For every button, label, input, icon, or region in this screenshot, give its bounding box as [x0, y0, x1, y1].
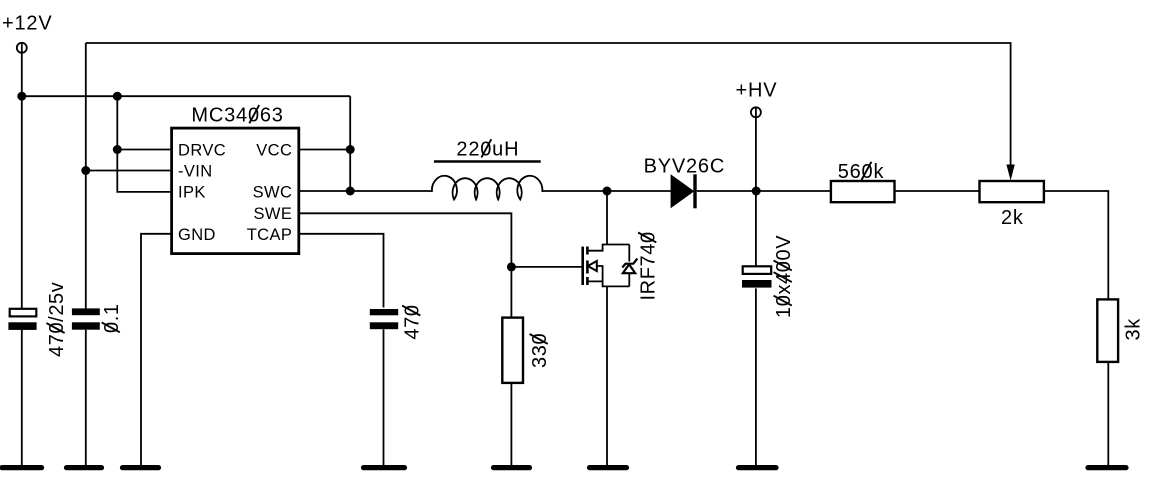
- ground G7: [739, 465, 777, 470]
- wire feedback vertical: [85, 43, 87, 309]
- svg-text:SWC: SWC: [253, 184, 293, 202]
- wire feedback top: [86, 43, 1011, 166]
- svg-text:470: 470: [402, 304, 424, 339]
- svg-text:MC34063: MC34063: [191, 105, 283, 127]
- wire C4 to ground: [383, 329, 385, 466]
- capacitor C3 10x400V: [742, 235, 795, 318]
- resistor R4 330: [502, 318, 551, 383]
- diode D1 BYV26C: [644, 155, 726, 208]
- node junction B: [113, 92, 122, 101]
- node junction DRVC: [113, 145, 122, 154]
- node +12V label: [2, 12, 52, 34]
- wire 3k to ground: [1107, 362, 1109, 466]
- wire +12V down to C1: [21, 53, 23, 309]
- inductor L1 220uH: [432, 139, 542, 200]
- wire TCAP to C4: [299, 234, 384, 308]
- wire source to ground: [606, 286, 608, 466]
- svg-text:TCAP: TCAP: [247, 226, 293, 244]
- capacitor C2 0.1: [72, 303, 123, 333]
- wire pot to 3k: [1044, 191, 1108, 299]
- wire diode to 560k: [697, 190, 831, 192]
- capacitor C1 470/25v: [8, 282, 67, 357]
- svg-text:2k: 2k: [1001, 207, 1024, 229]
- wire VCC stub: [299, 149, 350, 151]
- wire +HV down to C3: [755, 117, 757, 266]
- terminal +HV: [751, 107, 761, 118]
- wire C1 bottom to ground: [21, 330, 23, 466]
- ground G1: [2, 465, 42, 470]
- ground G2: [67, 465, 102, 470]
- resistor R3 3k: [1097, 299, 1144, 362]
- wire C3 bottom to ground: [755, 288, 757, 466]
- ground G5: [494, 465, 530, 470]
- resistor R1 560k: [831, 161, 895, 202]
- svg-text:220uH: 220uH: [456, 139, 519, 161]
- svg-text:GND: GND: [178, 226, 216, 244]
- terminal +12V: [17, 42, 27, 53]
- wire inductor to diode: [542, 190, 671, 192]
- svg-text:SWE: SWE: [254, 205, 293, 223]
- node +HV label: [736, 79, 778, 101]
- svg-text:IPK: IPK: [178, 184, 206, 202]
- svg-text:3k: 3k: [1123, 318, 1145, 341]
- wire SWC to inductor: [299, 190, 432, 192]
- node junction SWC: [346, 187, 355, 196]
- node junction drain: [603, 187, 612, 196]
- wire DRVC stub: [117, 149, 171, 151]
- wire vertical rail to SWC: [349, 96, 351, 191]
- svg-text:560k: 560k: [838, 161, 885, 183]
- svg-text:+12V: +12V: [2, 12, 52, 34]
- svg-text:+HV: +HV: [736, 79, 778, 101]
- svg-text:470/25v: 470/25v: [46, 282, 68, 357]
- node junction +HV: [752, 187, 761, 196]
- ground G4: [364, 465, 405, 470]
- ground G8: [1088, 465, 1126, 470]
- wire upper rail: [22, 95, 350, 97]
- ground G6: [590, 465, 627, 470]
- wire gate stub: [511, 266, 582, 268]
- capacitor C4 470: [370, 304, 424, 339]
- svg-text:BYV26C: BYV26C: [644, 155, 726, 177]
- wire vertical to DRVC/IPK: [117, 96, 171, 192]
- wire drain: [606, 191, 608, 245]
- transistor Q1 IRF740: [583, 231, 660, 300]
- ground G3: [123, 465, 159, 470]
- svg-text:VCC: VCC: [256, 142, 292, 160]
- IC U1 MC34063: [172, 105, 299, 254]
- svg-text:-VIN: -VIN: [178, 163, 213, 181]
- node junction VCC: [346, 145, 355, 154]
- wire C2 bottom to ground: [85, 330, 87, 466]
- wire -VIN stub: [86, 170, 172, 172]
- svg-text:330: 330: [529, 333, 551, 368]
- node junction gate: [507, 262, 516, 271]
- node junction -VIN: [81, 166, 90, 175]
- wire 560k to pot: [895, 190, 980, 192]
- wire SWE to gate node: [299, 213, 512, 317]
- potentiometer R2 2k: [980, 165, 1044, 229]
- svg-text:DRVC: DRVC: [178, 142, 226, 160]
- wire 330 to ground: [510, 383, 512, 466]
- node junction A: [17, 92, 26, 101]
- wire GND pin to ground: [141, 234, 172, 466]
